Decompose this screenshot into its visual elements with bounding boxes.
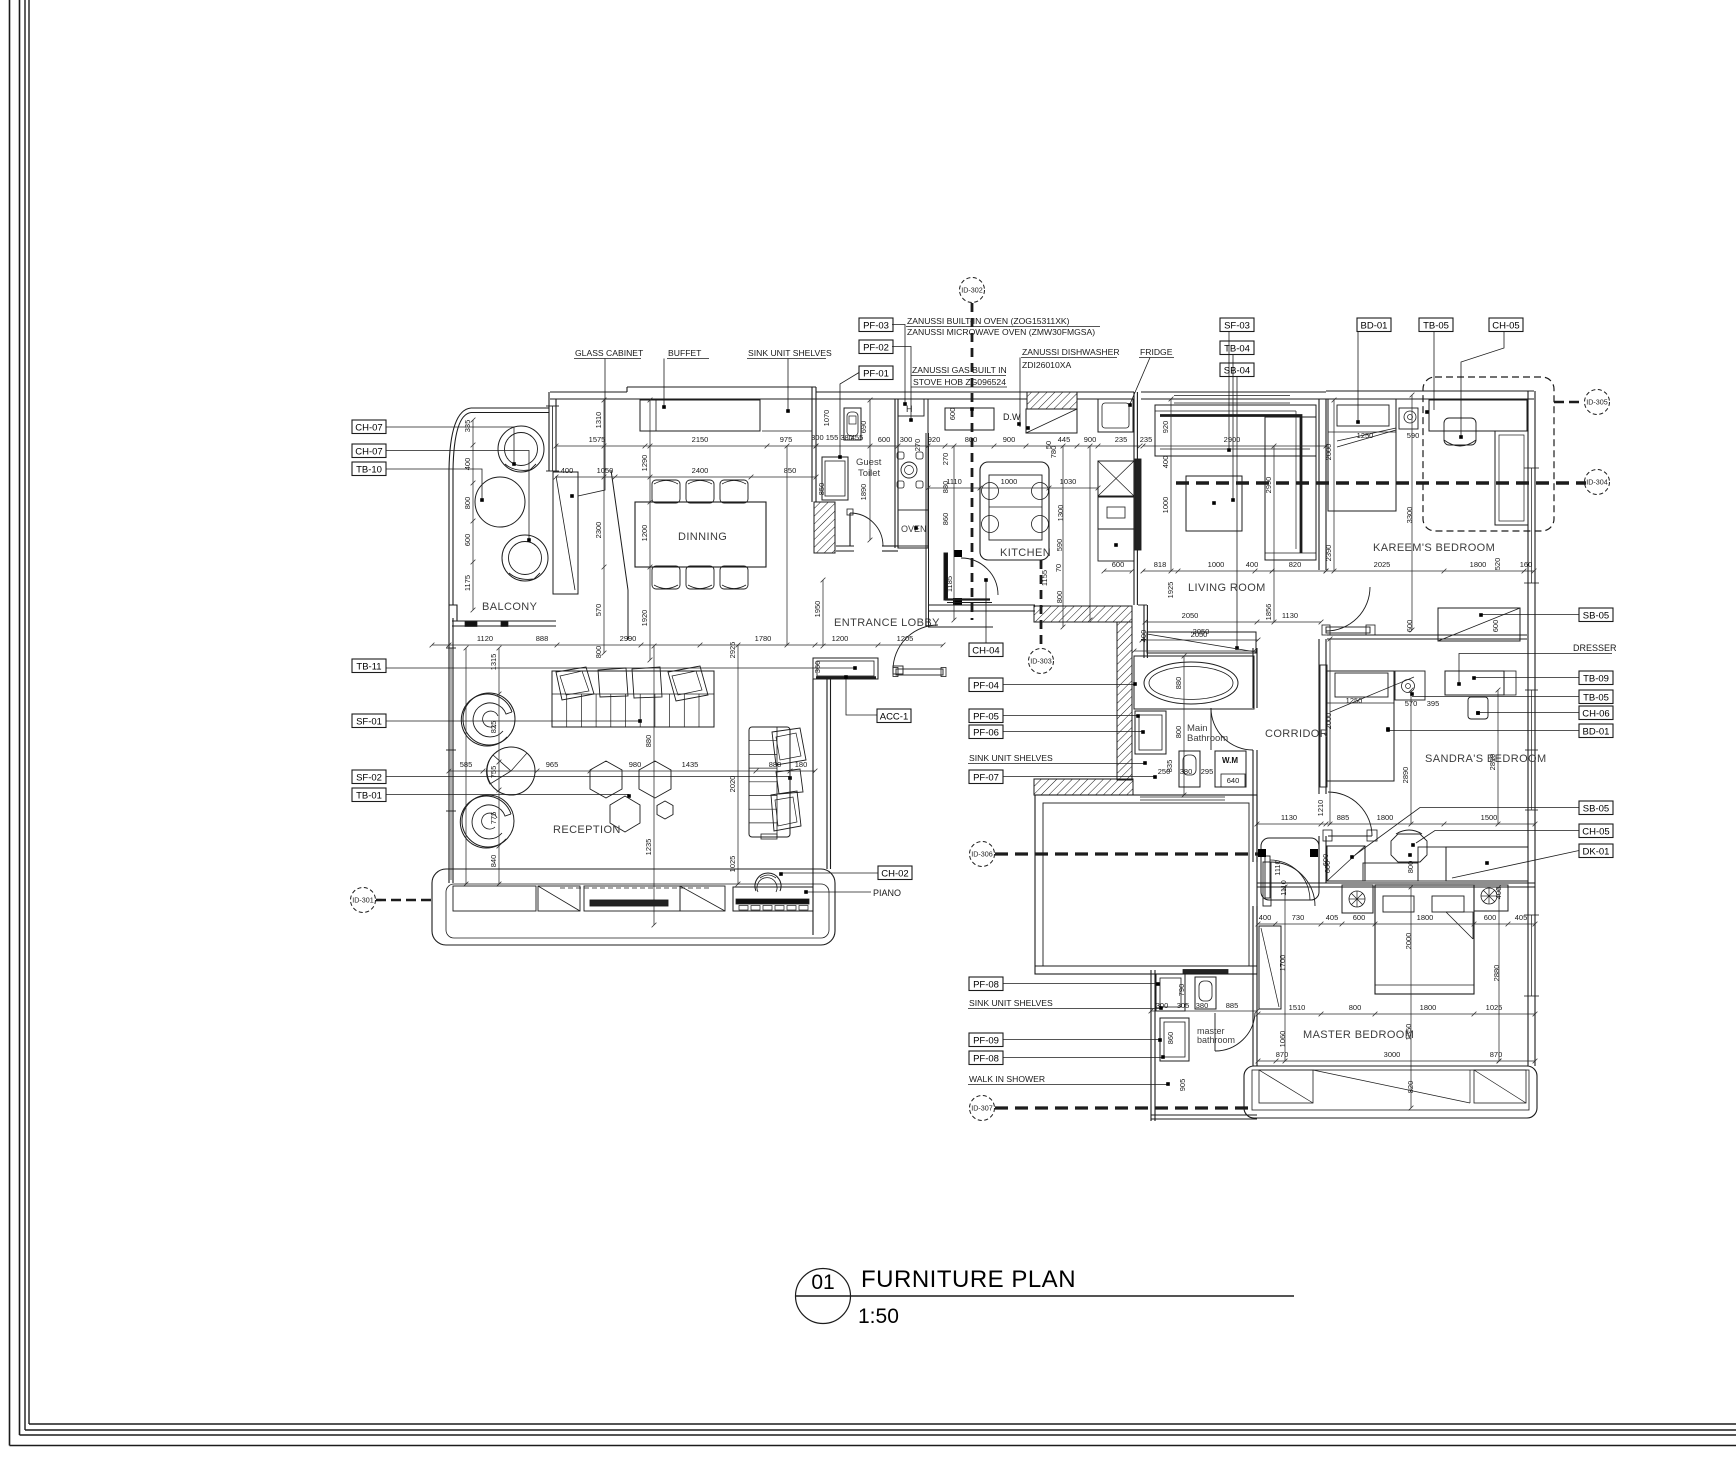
svg-text:2990: 2990: [1264, 477, 1273, 494]
svg-text:1800: 1800: [1417, 913, 1434, 922]
svg-text:600: 600: [948, 408, 957, 421]
svg-text:1025: 1025: [728, 856, 737, 873]
svg-text:880: 880: [769, 760, 782, 769]
label TB-09: [1579, 671, 1613, 685]
svg-text:FURNITURE PLAN: FURNITURE PLAN: [861, 1266, 1076, 1293]
svg-text:KITCHEN: KITCHEN: [1000, 547, 1051, 559]
island sink circles: [982, 483, 999, 500]
living top wall window: [1141, 391, 1326, 393]
svg-text:1925: 1925: [1166, 582, 1175, 599]
svg-text:ZANUSSI BUILT-IN OVEN (ZOG1531: ZANUSSI BUILT-IN OVEN (ZOG15311XK): [907, 316, 1070, 326]
svg-text:880: 880: [644, 735, 653, 748]
svg-text:860: 860: [1166, 1032, 1175, 1045]
terrace inner line: [446, 884, 829, 938]
svg-text:TB-10: TB-10: [356, 464, 382, 475]
svg-text:BD-01: BD-01: [1361, 320, 1388, 331]
label SF-01: [352, 714, 386, 728]
master bathroom left wall: [1150, 970, 1152, 1121]
svg-text:1950: 1950: [813, 601, 822, 618]
guest toilet top wall: [816, 391, 898, 393]
master door leaf: [1263, 862, 1271, 906]
svg-text:2020: 2020: [728, 776, 737, 793]
leader SF-01: [386, 720, 640, 722]
leader PF-04: [1003, 684, 1134, 686]
leader PF-05: [1003, 715, 1137, 717]
label CH-02: [878, 866, 912, 880]
hexagon table 3: [610, 796, 640, 832]
svg-text:1130: 1130: [1281, 813, 1297, 822]
leader TB-01: [386, 794, 629, 796]
svg-text:ID-305: ID-305: [1586, 398, 1608, 407]
sofa pillow 4: [668, 666, 708, 701]
svg-text:305: 305: [1177, 1001, 1190, 1010]
svg-text:BD-01: BD-01: [1583, 726, 1610, 737]
svg-text:800: 800: [463, 497, 472, 510]
reception right sofa: [749, 727, 790, 837]
svg-text:2000: 2000: [1324, 444, 1333, 461]
master bathroom door swing: [1215, 1013, 1255, 1051]
sofa pillow 2: [598, 668, 628, 697]
svg-text:900: 900: [1003, 435, 1016, 444]
svg-text:2025: 2025: [1374, 560, 1391, 569]
living sofa L vertical: [1265, 417, 1316, 560]
lobby kitchen lower line: [928, 626, 993, 628]
svg-text:2900: 2900: [1224, 435, 1241, 444]
svg-text:TB-05: TB-05: [1423, 320, 1449, 331]
leader PF-08 second: [1003, 1057, 1162, 1059]
sofa pillow 3: [632, 667, 662, 698]
svg-text:250: 250: [1158, 767, 1171, 776]
svg-text:2880: 2880: [1492, 965, 1501, 982]
master bedside right: [1474, 885, 1508, 911]
master bathroom wc: [1195, 977, 1216, 1009]
master bed foot line: [1375, 984, 1474, 986]
sandra master wall: [1257, 882, 1535, 884]
svg-text:920: 920: [1161, 421, 1170, 434]
dining chair bottom 1: [652, 566, 680, 589]
leader CH-05 top: [1461, 332, 1504, 437]
svg-text:BALCONY: BALCONY: [482, 601, 538, 613]
sandra bedside table: [1395, 671, 1425, 700]
reception lobby divider wall: [812, 679, 814, 935]
svg-text:600: 600: [463, 534, 472, 547]
svg-text:1890: 1890: [859, 484, 868, 501]
svg-text:1920: 1920: [640, 610, 649, 627]
balcony top wall: [471, 407, 549, 409]
kitchen hatch wall top: [1027, 392, 1077, 409]
svg-text:Guest: Guest: [856, 457, 882, 468]
leader PF-02: [892, 347, 911, 420]
tv console cabinet 1: [453, 886, 536, 911]
kareem vertical dim lines: [1333, 400, 1335, 571]
living dim line 2900: [1143, 445, 1326, 447]
svg-text:1130: 1130: [1282, 611, 1298, 620]
svg-text:PIANO: PIANO: [873, 888, 901, 898]
lobby niche TB-11 console: [813, 658, 878, 679]
dining chair bottom 3: [720, 566, 748, 589]
leader TB-05 top: [1433, 332, 1435, 411]
label CH-04: [969, 643, 1003, 657]
dining table: [635, 502, 766, 567]
svg-text:690: 690: [859, 421, 868, 434]
label PF-07: [969, 770, 1003, 784]
svg-text:ZANUSSI DISHWASHER: ZANUSSI DISHWASHER: [1022, 347, 1120, 357]
svg-text:1800: 1800: [1470, 560, 1487, 569]
svg-text:1210: 1210: [1316, 800, 1325, 817]
living coffee table: [1186, 476, 1242, 531]
label SB-05 sandra: [1579, 801, 1613, 815]
svg-text:395: 395: [1427, 699, 1440, 708]
svg-text:PF-07: PF-07: [973, 772, 999, 783]
master bed fold: [1446, 912, 1473, 939]
svg-text:800: 800: [1406, 861, 1415, 874]
svg-text:600: 600: [1323, 861, 1332, 874]
kitchen right counter bottom: [1098, 529, 1134, 561]
svg-text:400: 400: [561, 466, 574, 475]
tv set: [590, 900, 668, 906]
leader SF-03: [1228, 332, 1230, 450]
svg-text:640: 640: [1227, 776, 1240, 785]
sandra chair CH-05 bottom: [1391, 834, 1427, 862]
svg-text:TB-09: TB-09: [1583, 673, 1609, 684]
label DK-01: [1579, 844, 1613, 858]
ID-304 marker: [1585, 470, 1610, 495]
leader CH-06: [1478, 712, 1579, 714]
dining chair top 3: [720, 480, 748, 503]
reception dim line 585-965-980-1435-880-180: [449, 770, 815, 772]
svg-text:160: 160: [1520, 560, 1533, 569]
svg-text:70: 70: [1054, 564, 1063, 572]
label PF-08 second: [969, 1051, 1003, 1065]
leader BD-01 top: [1357, 332, 1359, 422]
svg-text:TB-04: TB-04: [1224, 343, 1250, 354]
label PF-02: [859, 340, 893, 354]
svg-text:RECEPTION: RECEPTION: [553, 824, 621, 836]
label CH-05 bottom: [1579, 824, 1613, 838]
dining dim line 1050-2400-850: [556, 476, 816, 478]
svg-text:bathroom: bathroom: [1197, 1035, 1235, 1045]
svg-text:295: 295: [1201, 767, 1214, 776]
kitchen hob burners: [897, 452, 904, 459]
ID-305 marker: [1554, 401, 1584, 404]
svg-text:900: 900: [1084, 435, 1097, 444]
bathroom left hatch wall: [1117, 622, 1132, 780]
wardrobe section middle diagonal: [1313, 1070, 1470, 1103]
dining right wall: [811, 387, 813, 502]
svg-text:ID-307: ID-307: [971, 1104, 993, 1113]
leader TB-11: [386, 667, 855, 669]
kareem bed BD-01: [1328, 399, 1396, 511]
svg-text:570: 570: [594, 604, 603, 617]
svg-text:335: 335: [463, 420, 472, 433]
leader SF-02: [386, 776, 790, 778]
svg-text:PF-05: PF-05: [973, 711, 999, 722]
terrace rounded rect outer: [432, 869, 835, 945]
wardrobe section left: [1259, 1070, 1313, 1103]
svg-text:ENTRANCE LOBBY: ENTRANCE LOBBY: [834, 617, 940, 629]
label BD-01 top: [1357, 318, 1391, 332]
svg-text:600: 600: [1112, 560, 1125, 569]
ID-301 marker: [351, 888, 376, 913]
leader PF-08: [1003, 983, 1157, 985]
leader CH-07 first: [386, 427, 514, 463]
entrance door leaf: [893, 666, 903, 674]
balcony bottom wall: [452, 620, 556, 622]
reception vertical dim line x738: [737, 645, 739, 884]
label SB-04: [1220, 363, 1254, 377]
kareem desk chair CH-05: [1444, 418, 1476, 445]
svg-text:ID-304: ID-304: [1586, 478, 1608, 487]
master door swing: [1271, 862, 1315, 906]
sandra dim line 1130-1800-1500: [1257, 823, 1535, 825]
dining dim line 1575-2150-975: [556, 445, 816, 447]
svg-text:SINK UNIT SHELVES: SINK UNIT SHELVES: [969, 998, 1053, 1008]
svg-text:1050: 1050: [597, 466, 614, 475]
leader PF-03: [892, 325, 905, 404]
right sofa pillow 1: [772, 728, 806, 765]
bedside star right: [1481, 888, 1497, 904]
leader PF-09: [1003, 1039, 1159, 1041]
svg-text:300 155 380: 300 155 380: [811, 433, 853, 442]
svg-text:PF-08: PF-08: [973, 979, 999, 990]
svg-text:270: 270: [913, 439, 922, 452]
guest toilet hatch wall: [814, 502, 835, 553]
living sofa inner lines: [1155, 410, 1296, 412]
svg-text:850: 850: [817, 483, 826, 496]
kareem top wall: [1326, 390, 1534, 392]
svg-text:2150: 2150: [692, 435, 709, 444]
svg-text:405: 405: [1326, 913, 1339, 922]
dining vertical dim line right: [649, 400, 651, 660]
kitchen left counter: [898, 399, 928, 548]
living vertical dims: [1170, 399, 1172, 571]
corridor bottom door rounded: [1261, 838, 1319, 900]
guest toilet bottom wall stubs: [836, 545, 854, 547]
dining chair bottom 2: [686, 566, 714, 589]
svg-text:D.W: D.W: [1003, 412, 1021, 422]
svg-text:SB-05: SB-05: [1583, 803, 1609, 814]
leader ACC-1: [846, 678, 877, 715]
svg-text:CH-06: CH-06: [1582, 708, 1609, 719]
svg-text:SF-03: SF-03: [1224, 320, 1250, 331]
svg-text:2400: 2400: [692, 466, 709, 475]
kitchen island: [980, 462, 1049, 560]
label TB-05 top: [1419, 318, 1453, 332]
svg-text:SF-01: SF-01: [356, 716, 382, 727]
leader SB-04: [1236, 377, 1238, 648]
sandra corridor wall lower: [1318, 836, 1320, 883]
dining vertical dim line far right: [786, 446, 788, 645]
bathroom sink: [1135, 711, 1166, 754]
svg-text:775: 775: [489, 812, 498, 825]
dishwasher: [1026, 409, 1077, 433]
kareem SB-05 cabinet: [1438, 608, 1520, 641]
kitchen left wall lower: [925, 433, 927, 626]
bathroom corridor wall: [1252, 648, 1254, 708]
svg-text:920: 920: [928, 435, 941, 444]
svg-text:1800: 1800: [1377, 813, 1394, 822]
svg-text:SB-05: SB-05: [1583, 610, 1609, 621]
living tv cabinet: [1147, 632, 1256, 653]
svg-text:840: 840: [489, 855, 498, 868]
bathroom bottom sill lines: [1140, 796, 1225, 798]
svg-text:CH-04: CH-04: [972, 645, 999, 656]
piano: [733, 887, 813, 911]
sandra chair CH-06: [1468, 697, 1488, 719]
ID-303 marker: [1040, 560, 1043, 648]
svg-text:380: 380: [1180, 767, 1193, 776]
svg-text:800: 800: [1174, 726, 1183, 739]
washing machine: [1215, 751, 1246, 787]
glass cabinet: [553, 472, 578, 594]
label TB-10: [352, 462, 386, 476]
leader SB-05 kareem: [1481, 614, 1579, 616]
leader BD-01 right: [1388, 730, 1579, 732]
reception vertical dim line x466: [465, 648, 467, 884]
border frame second: [19, 0, 21, 1435]
svg-text:2925: 2925: [728, 642, 737, 659]
balcony-dining diagonal glass: [611, 470, 628, 590]
svg-text:235: 235: [1140, 435, 1153, 444]
kitchen top wall right of hatch: [1077, 391, 1134, 393]
svg-text:520: 520: [1493, 558, 1502, 571]
svg-text:TB-01: TB-01: [356, 790, 382, 801]
svg-text:400: 400: [1259, 913, 1272, 922]
label SB-05 kareem: [1579, 608, 1613, 622]
wardrobe section right: [1474, 1070, 1526, 1103]
svg-text:SANDRA'S BEDROOM: SANDRA'S BEDROOM: [1425, 753, 1547, 765]
label SF-03: [1220, 318, 1254, 332]
label SF-02: [352, 770, 386, 784]
living sofa L horizontal: [1155, 405, 1316, 456]
kareem living wall: [1318, 399, 1320, 570]
reception long sofa: [552, 671, 714, 727]
void rectangle outer: [1035, 795, 1257, 974]
leader CH-04: [985, 581, 987, 643]
svg-text:BUFFET: BUFFET: [668, 348, 702, 358]
svg-text:2390: 2390: [1324, 545, 1333, 562]
svg-text:730: 730: [1292, 913, 1305, 922]
kitchen vertical dim lines: [953, 446, 955, 620]
lobby console ACC-1: [896, 669, 943, 675]
svg-text:2810: 2810: [1488, 754, 1497, 771]
svg-text:360: 360: [813, 661, 822, 674]
svg-text:1060: 1060: [1278, 1031, 1287, 1048]
svg-text:270: 270: [941, 453, 950, 466]
label CH-07 second: [352, 444, 386, 458]
kareem door swing: [1326, 587, 1370, 631]
dining top wall inner: [550, 398, 816, 400]
svg-text:1700: 1700: [1278, 955, 1287, 972]
svg-text:TB-05: TB-05: [1583, 692, 1609, 703]
reception armchair SF-02 top: [463, 693, 515, 745]
svg-text:2300: 2300: [594, 522, 603, 539]
svg-text:1435: 1435: [682, 760, 699, 769]
living sofa heavy back line: [1160, 416, 1301, 554]
lobby vertical dim 1950: [822, 580, 824, 646]
bathroom top hatch wall: [1034, 606, 1132, 622]
stove hob counter: [945, 408, 994, 430]
svg-text:380: 380: [1196, 1001, 1209, 1010]
sandra door swing: [1328, 792, 1372, 836]
sandra bottom bench: [1363, 863, 1418, 881]
svg-text:405: 405: [1515, 913, 1528, 922]
svg-text:2050: 2050: [1193, 627, 1210, 636]
svg-text:870: 870: [1276, 1050, 1289, 1059]
reception vertical dim line x499: [498, 648, 500, 884]
svg-text:PF-03: PF-03: [863, 320, 889, 331]
svg-text:TB-11: TB-11: [356, 661, 381, 672]
guest toilet door swing: [850, 513, 883, 546]
dining top wall outer: [550, 391, 627, 393]
master bathroom door head band: [1183, 970, 1228, 974]
svg-text:600: 600: [1405, 620, 1414, 633]
sandra bedside lamp: [1402, 680, 1415, 693]
kitchen H box: [898, 399, 924, 416]
svg-text:ZANUSSI GAS BUILT IN: ZANUSSI GAS BUILT IN: [912, 365, 1007, 375]
leader PF-06: [1003, 731, 1142, 733]
leader CH-05 bottom: [1416, 831, 1579, 844]
label CH-07 first: [352, 420, 386, 434]
kareem right wall window: [1527, 391, 1529, 639]
svg-text:1000: 1000: [1161, 497, 1170, 514]
border frame outer: [9, 0, 11, 1446]
svg-text:H: H: [906, 404, 913, 414]
master bathroom sink counter: [1156, 974, 1185, 1011]
kareem dashed balcony outline: [1423, 377, 1554, 531]
svg-text:1030: 1030: [1060, 477, 1077, 486]
svg-text:FRIDGE: FRIDGE: [1140, 347, 1173, 357]
living tv on wall: [1135, 459, 1141, 550]
svg-text:PF-04: PF-04: [973, 680, 999, 691]
kitchen left wall: [894, 399, 896, 548]
svg-text:1800: 1800: [1420, 1003, 1437, 1012]
kitchen island dim line: [928, 487, 1098, 489]
label PF-06: [969, 725, 1003, 739]
label TB-05 right: [1579, 690, 1613, 704]
kitchen lower left cabinet: [898, 510, 928, 546]
leader CH-02: [781, 872, 878, 874]
living hall dim 600: [1104, 570, 1132, 572]
svg-text:ID-303: ID-303: [1030, 657, 1052, 666]
border frame inner: [28, 0, 30, 1424]
sandra door leaf: [1323, 830, 1332, 841]
dining vertical dim line left: [603, 400, 605, 653]
svg-text:PF-09: PF-09: [973, 1035, 999, 1046]
master wardrobe left: [1259, 926, 1281, 1009]
svg-text:1000: 1000: [1208, 560, 1225, 569]
bathroom door swing: [1210, 708, 1212, 750]
sandra vertical dim lines: [1329, 639, 1331, 824]
sandra bed headboard: [1320, 665, 1327, 787]
svg-text:880: 880: [941, 481, 950, 494]
svg-text:180: 180: [795, 760, 808, 769]
sandra desk DK-01: [1446, 847, 1528, 881]
svg-text:SB-04: SB-04: [1224, 365, 1250, 376]
balcony bottom step: [449, 605, 457, 621]
leader TB-04: [1232, 355, 1234, 500]
svg-text:CH-05: CH-05: [1582, 826, 1609, 837]
svg-text:SINK UNIT SHELVES: SINK UNIT SHELVES: [748, 348, 832, 358]
svg-text:LIVING ROOM: LIVING ROOM: [1188, 582, 1266, 594]
svg-text:1070: 1070: [822, 410, 831, 427]
leader TB-05 right: [1412, 696, 1579, 698]
dining left window: [548, 392, 550, 471]
leader TB-10: [386, 469, 482, 500]
sandra corridor wall upper: [1318, 639, 1320, 794]
svg-text:780: 780: [1049, 446, 1058, 459]
sandra bottom mid cabinet: [1418, 847, 1446, 881]
